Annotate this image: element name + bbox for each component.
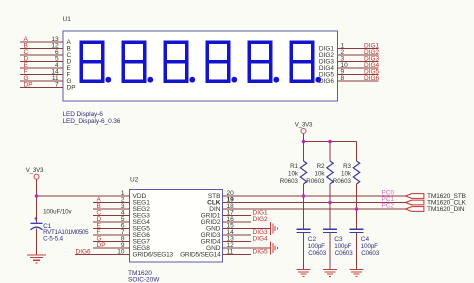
junction V_3V3/VDD (35, 194, 39, 198)
svg-text:100pF: 100pF (334, 243, 351, 250)
ground at U2 pin 12 (271, 242, 278, 255)
svg-text:GRID6/SEG13: GRID6/SEG13 (133, 252, 174, 259)
wire U2 pin 14 DIG3 (223, 234, 251, 236)
wire net PC0 U2 pin 20 to port (223, 195, 406, 197)
capacitor C4 (350, 229, 364, 232)
wire R3 down through PC2 to C4 (356, 184, 358, 229)
svg-text:C0603: C0603 (308, 250, 326, 257)
junction rail/R1 (302, 140, 306, 144)
wire net A to U2 pin 2 (93, 202, 129, 204)
svg-text:C0603: C0603 (335, 250, 353, 257)
svg-text:U1: U1 (63, 16, 72, 23)
7-segment digit 5 (248, 42, 273, 81)
svg-text:R3: R3 (343, 163, 351, 170)
wire net A to U1 (20, 41, 63, 43)
svg-text:DP: DP (67, 85, 76, 92)
port TM1620_CLK flag (406, 200, 424, 205)
svg-text:R2: R2 (317, 163, 325, 170)
ground below C3 (323, 270, 337, 277)
wire net E to U1 (20, 67, 63, 69)
wire U2 pin 11 DIG5 (223, 254, 251, 256)
svg-text:SOIC-20W: SOIC-20W (128, 277, 160, 283)
svg-text:C0603: C0603 (361, 250, 379, 257)
wire net E to U2 pin 6 (93, 228, 129, 230)
port TM1620_DIN flag (406, 207, 424, 212)
wire U1 DIG3 (338, 61, 379, 63)
wire C1 to ground (36, 229, 38, 255)
wire U2 pin 13 DIG4 (223, 241, 251, 243)
wire net F to U1 (20, 74, 63, 76)
svg-text:TM1620_DIN: TM1620_DIN (427, 206, 465, 213)
power port V_3V3 (right) circle (301, 129, 306, 134)
svg-text:C3: C3 (334, 236, 343, 243)
wire C3 to ground (329, 233, 331, 270)
ground below C4 (350, 270, 364, 277)
svg-text:100pF: 100pF (361, 243, 378, 250)
svg-text:C4: C4 (361, 236, 370, 243)
wire net G to U2 pin 8 (93, 241, 129, 243)
wire rail to R3 (356, 142, 358, 162)
junction R1/PC0 (302, 194, 306, 198)
capacitor C1 (31, 223, 43, 230)
svg-text:8: 8 (341, 75, 345, 82)
wire rail to resistors (304, 141, 357, 143)
IC U2 TM1620 body (129, 190, 222, 262)
ground below C2 (297, 270, 311, 277)
7-segment digit 1 (80, 42, 105, 81)
capacitor C2 (297, 229, 311, 232)
svg-text:R0603: R0603 (306, 178, 325, 185)
power port V_3V3 (left) circle (34, 174, 39, 179)
svg-text:DP: DP (24, 81, 33, 88)
svg-text:10: 10 (117, 248, 125, 255)
resistor R1 (300, 161, 306, 184)
wire net F to U2 pin 7 (93, 234, 129, 236)
7-seg display U1 body (63, 31, 338, 101)
svg-text:R1: R1 (290, 163, 298, 170)
svg-text:V_3V3: V_3V3 (26, 167, 44, 174)
svg-text:U2: U2 (130, 177, 139, 184)
wire net G to U1 (20, 80, 63, 82)
wire V_3V3 down to rail (303, 134, 305, 142)
wire V_3V3 down to C1 (36, 179, 38, 223)
resistor R2 (327, 161, 333, 184)
wire U2 pin 15 GND (223, 228, 271, 230)
svg-text:DIG2: DIG2 (253, 216, 269, 223)
svg-text:DP: DP (97, 242, 106, 249)
wire net DIG6 to U2 pin 10 (75, 254, 129, 256)
wire C4 to ground (356, 233, 358, 270)
svg-text:V_3V3: V_3V3 (295, 121, 313, 128)
wire net B to U1 (20, 48, 63, 50)
wire net C to U1 (20, 54, 63, 56)
wire U1 DIG1 (338, 48, 379, 50)
wire U2 pin 16 DIG2 (223, 221, 251, 223)
junction R3/PC2 (355, 207, 359, 211)
svg-text:DIG5: DIG5 (253, 248, 269, 255)
svg-text:7: 7 (55, 81, 59, 88)
svg-text:10k: 10k (341, 170, 352, 177)
wire net C to U2 pin 4 (93, 215, 129, 217)
svg-text:C-5-5.4: C-5-5.4 (43, 235, 64, 242)
svg-text:100pF: 100pF (308, 243, 325, 250)
7-segment digit 6 (290, 42, 315, 81)
wire net DP to U2 pin 9 (93, 247, 129, 249)
wire U1 DIG4 (338, 67, 379, 69)
svg-text:PC2: PC2 (382, 203, 395, 210)
wire U1 DIG2 (338, 54, 379, 56)
svg-text:LED_Dispaly-6_0.36: LED_Dispaly-6_0.36 (63, 118, 121, 125)
svg-text:C2: C2 (308, 236, 317, 243)
wire rail to R1 (303, 142, 305, 162)
svg-text:DIG6: DIG6 (76, 248, 92, 255)
7-segment digit 2 (122, 42, 147, 81)
svg-text:10k: 10k (315, 170, 326, 177)
ground below C1 (27, 255, 46, 263)
wire net PC1 U2 pin 19 to port (223, 202, 406, 204)
wire V_3V3 to U2 VDD pin 1 (37, 195, 130, 197)
junction R2/PC1 (328, 201, 332, 205)
wire U1 DIG5 (338, 74, 379, 76)
svg-text:DIG4: DIG4 (253, 235, 269, 242)
wire net B to U2 pin 3 (93, 208, 129, 210)
wire net D to U1 (20, 61, 63, 63)
wire R2 down through PC1 to C3 (329, 184, 331, 229)
wire U2 pin 17 DIG1 (223, 215, 251, 217)
wire U1 DIG6 (338, 80, 379, 82)
svg-text:11: 11 (227, 248, 234, 255)
wire net PC2 U2 pin 18 to port (223, 208, 406, 210)
svg-text:+: + (34, 216, 38, 223)
wire rail to R2 (329, 142, 331, 162)
wire net D to U2 pin 5 (93, 221, 129, 223)
junction rail/R2 (328, 140, 332, 144)
wire net DP to U1 (20, 87, 63, 89)
svg-text:DIG6: DIG6 (364, 75, 380, 82)
svg-text:10k: 10k (288, 170, 299, 177)
wire R1 down through PC0 to C2 (303, 184, 305, 229)
7-segment digit 3 (164, 42, 189, 81)
ground at U2 pin 15 (271, 222, 278, 235)
svg-text:GRID5/SEG14: GRID5/SEG14 (180, 252, 221, 259)
port TM1620_STB flag (406, 194, 424, 199)
svg-text:R0603: R0603 (280, 178, 299, 185)
resistor R3 (353, 161, 359, 184)
capacitor C3 (323, 229, 337, 232)
svg-text:R0603: R0603 (333, 178, 352, 185)
7-segment digit 4 (206, 42, 231, 81)
wire C2 to ground (303, 233, 305, 270)
wire U2 pin 12 GND (223, 247, 271, 249)
svg-text:100uF/10v: 100uF/10v (43, 208, 72, 215)
